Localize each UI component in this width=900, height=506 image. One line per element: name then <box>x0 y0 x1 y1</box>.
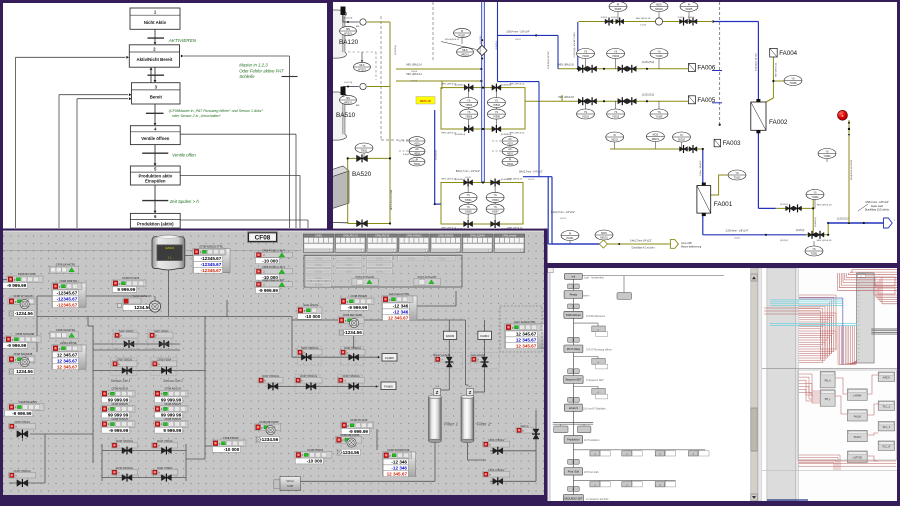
svg-text:(3,2/5,2/5,2): (3,2/5,2/5,2) <box>642 95 655 97</box>
svg-text:3,2/6,4: 3,2/6,4 <box>611 17 618 19</box>
svg-text:SEQUENZ-SET: SEQUENZ-SET <box>564 497 583 501</box>
svg-text:12 345.67: 12 345.67 <box>387 471 408 476</box>
svg-text:T0011: T0011 <box>414 163 421 166</box>
svg-text:AC: AC <box>415 138 419 141</box>
svg-text:CxOrq: CxOrq <box>345 271 353 274</box>
svg-text:-9 999.99: -9 999.99 <box>348 305 368 310</box>
svg-text:Z: Z <box>469 390 472 395</box>
svg-text:CF08 W501017TRL: CF08 W501017TRL <box>199 245 223 249</box>
svg-text:"teil": "teil" <box>468 385 472 388</box>
svg-text:CxOrq: CxOrq <box>315 264 323 267</box>
svg-text:(0,45/45,4): (0,45/45,4) <box>455 179 466 181</box>
svg-text:YS: YS <box>466 206 470 209</box>
svg-text:Aktiv/Nicht Bereit: Aktiv/Nicht Bereit <box>136 57 172 62</box>
svg-text:CF08 WY1015: CF08 WY1015 <box>18 272 36 276</box>
svg-text:Gebr SetSO/cTRL: Gebr SetSO/cTRL <box>514 320 536 324</box>
svg-text:MC PuWeg: MC PuWeg <box>567 347 581 351</box>
svg-text:T0011: T0011 <box>361 149 368 152</box>
svg-text:3,5/xx - 1/8"x1/4": 3,5/xx - 1/8"x1/4" <box>700 160 702 176</box>
svg-text:CF08 AI101/5: CF08 AI101/5 <box>111 387 128 391</box>
svg-text:M0101: M0101 <box>600 236 608 239</box>
svg-text:Y0105: Y0105 <box>656 115 664 118</box>
svg-text:Sequenz-SET: Sequenz-SET <box>565 378 582 382</box>
svg-text:"teilw" säV/stVo5: "teilw" säV/stVo5 <box>133 295 152 298</box>
svg-text:Pt: Pt <box>461 30 464 33</box>
svg-text:CF08 SO500/cTRL: CF08 SO500/cTRL <box>387 448 410 452</box>
svg-text:-12345.67: -12345.67 <box>57 297 78 302</box>
svg-text:99 999 99: 99 999 99 <box>108 413 129 418</box>
svg-text:Y0501: Y0501 <box>465 199 473 202</box>
svg-text:-9 999.99: -9 999.99 <box>7 283 27 288</box>
svg-text:WE101: WE101 <box>461 53 470 56</box>
svg-text:(0,45/45,4): (0,45/45,4) <box>501 134 512 136</box>
svg-text:Durchfluss 10,5 ml/min: Durchfluss 10,5 ml/min <box>865 209 890 212</box>
svg-text:CxOrq: CxOrq <box>408 257 416 260</box>
svg-text:M0102: M0102 <box>655 8 663 11</box>
svg-text:L5012: L5012 <box>528 179 535 181</box>
svg-text:3,2/6,4mm - 1/8"x1/4": 3,2/6,4mm - 1/8"x1/4" <box>726 230 749 233</box>
svg-text:Produktion (aktiv): Produktion (aktiv) <box>137 221 174 226</box>
svg-text:0,4x(2,7mm-1/4"x1/2": 0,4x(2,7mm-1/4"x1/2" <box>630 241 652 243</box>
svg-text:MOS: MOS <box>601 232 607 235</box>
svg-text:12 345.67: 12 345.67 <box>57 359 78 364</box>
svg-text:W/14: W/14 <box>286 479 293 483</box>
svg-text:A201: A201 <box>507 142 513 145</box>
svg-text:MLS: MLS <box>360 64 365 67</box>
svg-text:CF08 MEY02/M: CF08 MEY02/M <box>259 420 279 424</box>
svg-text:6: 6 <box>154 33 156 37</box>
svg-text:YS: YS <box>614 50 618 53</box>
svg-text:(3,2/5,2/5,2): (3,2/5,2/5,2) <box>837 219 850 221</box>
svg-text:FA004: FA004 <box>779 50 797 57</box>
svg-text:"teil": "teil" <box>435 385 439 388</box>
svg-text:AC: AC <box>415 148 419 151</box>
svg-text:99 999 99: 99 999 99 <box>161 413 182 418</box>
svg-text:all akt 9: all akt 9 <box>569 406 578 410</box>
svg-text:oil-to-oil/B: oil-to-oil/B <box>681 242 692 245</box>
svg-text:-9 999.99: -9 999.99 <box>258 288 278 293</box>
svg-text:YS: YS <box>362 145 366 148</box>
svg-text:CF08 MEY0296: CF08 MEY0296 <box>340 433 360 437</box>
svg-text:YS: YS <box>791 77 795 80</box>
svg-text:CF08 W01TRL: CF08 W01TRL <box>60 279 78 283</box>
svg-text:(0,05/25,2): (0,05/25,2) <box>815 217 817 227</box>
svg-text:HEV U(PuS.18: HEV U(PuS.18 <box>558 65 574 67</box>
svg-text:MOS: MOS <box>656 3 662 6</box>
svg-text:YS: YS <box>493 194 497 197</box>
svg-text:Einspülen: Einspülen <box>145 179 166 184</box>
svg-text:Master in 1,2,3: Master in 1,2,3 <box>239 63 268 68</box>
svg-text:Y0506: Y0506 <box>465 116 473 119</box>
svg-text:CF08 AI101/5: CF08 AI101/5 <box>164 387 181 391</box>
svg-text:Y0103: Y0103 <box>612 115 620 118</box>
svg-text:Filter 2: Filter 2 <box>477 422 491 427</box>
svg-text:CF08 PC1015: CF08 PC1015 <box>122 276 140 280</box>
svg-text:(1,0/1,0): (1,0/1,0) <box>344 18 352 20</box>
svg-text:-10 000: -10 000 <box>305 314 321 319</box>
svg-text:RETo-W: RETo-W <box>420 99 431 103</box>
svg-text:0,4x(2,7mm - 1/4"x1/2": 0,4x(2,7mm - 1/4"x1/2" <box>551 211 575 214</box>
svg-text:Filter 1: Filter 1 <box>444 422 458 427</box>
svg-text:P0101: P0101 <box>567 237 575 240</box>
svg-text:Pt: Pt <box>688 3 691 6</box>
svg-text:CxOrq: CxOrq <box>315 284 323 287</box>
svg-text:YS: YS <box>813 191 817 194</box>
svg-text:CF08 MEY0298: CF08 MEY0298 <box>343 313 363 317</box>
svg-text:12 345.67: 12 345.67 <box>516 332 537 337</box>
svg-text:CF08_PUT1/2: CF08_PUT1/2 <box>343 236 358 238</box>
svg-text:Ventile öffnen: Ventile öffnen <box>141 136 170 141</box>
svg-text:-10 000: -10 000 <box>307 459 323 464</box>
svg-text:5,6x(2,7mm - 1/4"x1/2": 5,6x(2,7mm - 1/4"x1/2" <box>403 154 425 156</box>
svg-text:S PuT Flussweg öffnen: S PuT Flussweg öffnen <box>586 348 612 351</box>
svg-text:CF08 UKA4TRL: CF08 UKA4TRL <box>56 263 76 267</box>
svg-text:CF08 AI502/5: CF08 AI502/5 <box>164 402 181 406</box>
svg-text:3,5/1(D)(L5.18"/1/4": 3,5/1(D)(L5.18"/1/4" <box>755 53 757 72</box>
svg-text:0,45/45,4: 0,45/45,4 <box>496 40 498 50</box>
svg-text:3,5/8,4 mm - 1/8"x1/4": 3,5/8,4 mm - 1/8"x1/4" <box>506 31 530 34</box>
svg-text:Init: Init <box>572 275 576 279</box>
svg-text:YS: YS <box>466 194 470 197</box>
svg-text:L5017: L5017 <box>515 39 522 41</box>
svg-text:T0108: T0108 <box>790 82 797 85</box>
svg-text:-9 999.99: -9 999.99 <box>7 343 27 348</box>
svg-text:CF08 AI502/5: CF08 AI502/5 <box>111 402 128 406</box>
svg-text:YS: YS <box>584 50 588 53</box>
svg-text:T0011: T0011 <box>507 163 514 166</box>
svg-text:S Sequenz SET: S Sequenz SET <box>586 379 604 382</box>
svg-text:Gebr teSv2o: Gebr teSv2o <box>303 303 319 307</box>
svg-text:-1234.56: -1234.56 <box>260 437 279 442</box>
svg-text:CF08 SC10158: CF08 SC10158 <box>16 332 35 336</box>
svg-text:IV08: IV08 <box>287 484 294 488</box>
svg-text:BA/(2,7mm - 1/4"x1/2": BA/(2,7mm - 1/4"x1/2" <box>519 171 543 174</box>
svg-text:CF08 PC1015: CF08 PC1015 <box>350 418 368 422</box>
svg-text:T0201: T0201 <box>811 252 818 255</box>
svg-text:3,5/8,4 mm - 1/8"x1/4": 3,5/8,4 mm - 1/8"x1/4" <box>865 201 889 204</box>
svg-text:-12 346: -12 346 <box>391 460 407 465</box>
svg-text:CF08 TI201/5: CF08 TI201/5 <box>165 417 182 421</box>
svg-text:Ventile offen: Ventile offen <box>172 152 196 157</box>
svg-text:FA003: FA003 <box>723 140 741 147</box>
svg-text:50102: 50102 <box>678 138 685 141</box>
svg-text:FA003: FA003 <box>446 334 455 338</box>
svg-text:L5011: L5011 <box>411 160 417 162</box>
svg-text:1234.56: 1234.56 <box>134 305 151 310</box>
svg-text:S PuW Aktivieren: S PuW Aktivieren <box>586 315 606 318</box>
svg-text:L5004: L5004 <box>734 238 741 240</box>
svg-text:Pt: Pt <box>617 3 620 6</box>
svg-text:HEV U(PuS.18: HEV U(PuS.18 <box>817 240 832 242</box>
svg-text:-12 346: -12 346 <box>393 304 409 309</box>
svg-text:AML: AML <box>356 104 360 107</box>
svg-text:CF08_CQK4/1: CF08_CQK4/1 <box>470 236 486 238</box>
svg-text:Y0508: Y0508 <box>493 116 501 119</box>
svg-text:PB_A: PB_A <box>825 380 832 383</box>
svg-text:BA/(1,7 mm - 1/4"x1/2": BA/(1,7 mm - 1/4"x1/2" <box>456 170 480 173</box>
svg-text:M0101: M0101 <box>652 138 660 141</box>
svg-text:YS: YS <box>812 248 816 251</box>
svg-text:-12345.67: -12345.67 <box>201 262 222 267</box>
svg-text:YS: YS <box>614 111 618 114</box>
svg-text:(3,2/5,2): (3,2/5,2) <box>796 230 805 232</box>
svg-text:PA11S: PA11S <box>854 436 861 439</box>
svg-text:AE01: AE01 <box>507 153 514 156</box>
svg-text:Y0502: Y0502 <box>465 104 473 107</box>
svg-text:HEV U(PuS.18: HEV U(PuS.18 <box>817 205 832 207</box>
svg-text:50105: 50105 <box>615 8 622 11</box>
svg-text:LARTSE: LARTSE <box>853 457 863 460</box>
svg-text:Y0302: Y0302 <box>824 155 832 158</box>
svg-text:FA006: FA006 <box>385 356 394 360</box>
svg-text:WE101: WE101 <box>344 101 353 104</box>
svg-text:(0,45/45,4): (0,45/45,4) <box>436 150 438 160</box>
svg-text:-9 999.99: -9 999.99 <box>109 428 129 433</box>
svg-text:HEV U(PuS.18: HEV U(PuS.18 <box>776 62 778 77</box>
svg-text:(3,2/5,2): (3,2/5,2) <box>780 240 788 242</box>
svg-text:0,45/45,4 - 8,4(1,0)4: 0,45/45,4 - 8,4(1,0)4 <box>480 35 482 55</box>
svg-text:CF08_Vento6: CF08_Vento6 <box>502 235 517 238</box>
svg-text:VEx(UPuS.18 L5015: VEx(UPuS.18 L5015 <box>851 159 853 180</box>
svg-text:99 999.99: 99 999.99 <box>161 398 182 403</box>
svg-text:CF08 SFQ0108: CF08 SFQ0108 <box>13 352 32 356</box>
svg-text:HEV U(Pu5.18: HEV U(Pu5.18 <box>636 18 651 20</box>
svg-text:(CF08Master in „PAT Flussweg ö: (CF08Master in „PAT Flussweg öffnen“ und… <box>169 109 264 113</box>
svg-text:Y0507: Y0507 <box>492 211 500 214</box>
svg-text:Y0104: Y0104 <box>612 55 620 58</box>
svg-text:CxOrq: CxOrq <box>315 277 323 280</box>
svg-text:HEV U(PuS.14: HEV U(PuS.14 <box>406 65 422 67</box>
svg-text:20 Prod. Edit: 20 Prod. Edit <box>584 471 599 474</box>
svg-text:LARM4: LARM4 <box>853 395 862 398</box>
svg-text:3,2/6,4: 3,2/6,4 <box>678 17 685 19</box>
svg-text:HEV U(PuS.1Z: HEV U(PuS.1Z <box>510 133 525 135</box>
svg-text:CF08 PI5015: CF08 PI5015 <box>223 436 239 440</box>
svg-text:-12345.67: -12345.67 <box>57 291 78 296</box>
svg-text:BA120: BA120 <box>339 39 359 46</box>
svg-text:Y0503: Y0503 <box>492 199 500 202</box>
svg-text:CxOrq: CxOrq <box>315 257 323 260</box>
svg-text:MOS: MOS <box>653 133 659 136</box>
svg-text:CxOrq: CxOrq <box>376 257 384 260</box>
svg-text:-10 000: -10 000 <box>224 447 240 452</box>
svg-text:1 L: 1 L <box>168 256 173 260</box>
svg-text:Schleife: Schleife <box>239 74 255 79</box>
svg-text:Sensor-Set 1: Sensor-Set 1 <box>111 379 131 383</box>
svg-text:9 999.99: 9 999.99 <box>163 428 181 433</box>
svg-text:YS: YS <box>735 172 739 175</box>
svg-text:(3,2/5,2): (3,2/5,2) <box>780 204 788 206</box>
svg-text:HEV U(PuS.1Z L5008: HEV U(PuS.1Z L5008 <box>391 189 393 210</box>
svg-text:HEV U(PuS.18: HEV U(PuS.18 <box>558 97 574 99</box>
svg-text:-9 999.99: -9 999.99 <box>12 411 32 416</box>
svg-text:Produktion: Produktion <box>567 438 580 442</box>
svg-text:-12345.67: -12345.67 <box>57 302 78 307</box>
svg-text:12 345.67: 12 345.67 <box>57 364 78 369</box>
svg-text:YS: YS <box>495 99 499 102</box>
svg-text:CF08 LP07RL: CF08 LP07RL <box>60 341 78 345</box>
svg-text:Pt: Pt <box>614 134 617 137</box>
svg-text:CF08_FISW20: CF08_FISW20 <box>438 236 454 238</box>
svg-text:L5006: L5006 <box>411 81 418 83</box>
svg-text:Durchfluss 4,2 mL/min: Durchfluss 4,2 mL/min <box>632 247 656 250</box>
svg-text:T0103: T0103 <box>734 176 741 179</box>
svg-text:Gebr beton/cTRL: Gebr beton/cTRL <box>389 292 410 296</box>
svg-text:AVE3Y: AVE3Y <box>883 377 891 380</box>
svg-text:(0,45/45,4): (0,45/45,4) <box>455 134 466 136</box>
svg-text:Pt: Pt <box>509 158 512 161</box>
svg-text:-1234.56: -1234.56 <box>15 311 34 316</box>
svg-text:Nicht Aktiv: Nicht Aktiv <box>144 20 167 25</box>
svg-text:CF08: CF08 <box>255 235 271 242</box>
svg-text:CF08_PUT30: CF08_PUT30 <box>375 236 390 238</box>
svg-text:CxOrq: CxOrq <box>345 264 353 267</box>
svg-text:Y0504: Y0504 <box>493 104 501 107</box>
svg-text:YS: YS <box>467 111 471 114</box>
svg-text:PAL06: PAL06 <box>854 415 862 418</box>
svg-text:BA010: BA010 <box>165 246 174 250</box>
svg-text:-1234.56: -1234.56 <box>341 450 360 455</box>
svg-text:Y0202: Y0202 <box>812 196 820 199</box>
svg-text:FA004: FA004 <box>480 334 489 338</box>
svg-text:3,2/6,4: 3,2/6,4 <box>601 17 608 19</box>
svg-text:U(PuS(PuS.1Z: U(PuS(PuS.1Z <box>445 39 460 41</box>
svg-text:AKTIVIEREN: AKTIVIEREN <box>168 38 197 43</box>
svg-text:CxOrq: CxOrq <box>438 257 446 260</box>
svg-text:Y0102: Y0102 <box>582 55 590 58</box>
svg-text:CF08_FISW15: CF08_FISW15 <box>406 236 422 238</box>
svg-text:-10 000: -10 000 <box>262 258 278 263</box>
svg-text:YS: YS <box>825 150 829 153</box>
svg-text:AC: AC <box>508 148 512 151</box>
svg-text:Sensor-Set 2: Sensor-Set 2 <box>163 379 183 383</box>
svg-text:L5018: L5018 <box>640 25 647 27</box>
svg-text:Pt: Pt <box>569 232 572 235</box>
svg-text:CxOrq: CxOrq <box>315 271 323 274</box>
svg-text:PLC_R: PLC_R <box>883 446 891 449</box>
svg-text:P0101: P0101 <box>459 34 467 37</box>
svg-text:Y0106: Y0106 <box>656 55 664 58</box>
svg-text:10 Produktion: 10 Produktion <box>584 439 600 442</box>
svg-text:Lauf - Vorbereiten: Lauf - Vorbereiten <box>584 277 604 280</box>
svg-text:PLC_3: PLC_3 <box>883 426 891 429</box>
svg-text:-12 346: -12 346 <box>393 310 409 315</box>
svg-text:(3,16(4)(6), 1/5x1/4" L5016: (3,16(4)(6), 1/5x1/4" L5016 <box>574 32 576 58</box>
svg-text:12 345.67: 12 345.67 <box>516 338 537 343</box>
svg-text:YS: YS <box>657 50 661 53</box>
svg-text:PLC_2: PLC_2 <box>883 406 891 409</box>
svg-text:Pt: Pt <box>680 134 683 137</box>
svg-text:A: A <box>842 114 844 118</box>
svg-text:3,5/1(D)(L5.18"/1/4": 3,5/1(D)(L5.18"/1/4" <box>548 51 550 70</box>
svg-text:1234.56: 1234.56 <box>16 369 33 374</box>
svg-text:12 345.67: 12 345.67 <box>57 353 78 358</box>
svg-text:YS: YS <box>493 206 497 209</box>
svg-text:CF08 P01026: CF08 P01026 <box>350 294 367 298</box>
svg-text:Ready: Ready <box>570 293 578 297</box>
svg-text:YS: YS <box>657 111 661 114</box>
svg-text:CF08 TI201/5: CF08 TI201/5 <box>112 417 129 421</box>
svg-text:PB_L: PB_L <box>825 398 832 401</box>
svg-text:FA005: FA005 <box>384 384 393 388</box>
svg-text:CxOrq: CxOrq <box>345 257 353 260</box>
svg-text:12 345.67: 12 345.67 <box>388 315 409 320</box>
svg-text:ZuU und P Stabilisie...: ZuU und P Stabilisie... <box>583 407 608 410</box>
svg-text:50105: 50105 <box>686 8 693 11</box>
svg-text:Prod. Edit: Prod. Edit <box>568 470 580 474</box>
svg-text:AML: AML <box>356 25 360 28</box>
svg-text:BA510: BA510 <box>336 112 356 119</box>
svg-text:AC: AC <box>508 138 512 141</box>
svg-text:CxOrq: CxOrq <box>376 271 384 274</box>
svg-text:(1,0/1,0): (1,0/1,0) <box>344 82 352 84</box>
svg-text:Y0505: Y0505 <box>465 211 473 214</box>
svg-text:Z: Z <box>436 390 439 395</box>
svg-text:9 999.99: 9 999.99 <box>117 287 135 292</box>
svg-text:(0,45/45,4): (0,45/45,4) <box>501 84 512 86</box>
svg-text:PAW Aktivier: PAW Aktivier <box>566 313 581 317</box>
svg-text:WY201: WY201 <box>344 32 353 35</box>
svg-text:L5012: L5012 <box>560 218 567 220</box>
svg-text:MLS: MLS <box>463 49 468 52</box>
svg-text:Gesa: nach: Gesa: nach <box>871 205 884 208</box>
svg-text:Bereit: Bereit <box>150 95 163 100</box>
svg-text:YS: YS <box>467 99 471 102</box>
svg-text:Y0101: Y0101 <box>582 115 590 118</box>
svg-text:-12 346: -12 346 <box>391 466 407 471</box>
svg-text:(0,45/45,4): (0,45/45,4) <box>455 84 466 86</box>
svg-text:Masse-kalibrierung: Masse-kalibrierung <box>681 246 702 249</box>
svg-text:Zeit Spülen > h: Zeit Spülen > h <box>169 199 200 204</box>
svg-text:zu Sequenz auf PuT...: zu Sequenz auf PuT... <box>586 498 611 501</box>
svg-text:MS: MS <box>346 97 350 100</box>
svg-text:CF08 WY10108: CF08 WY10108 <box>13 294 33 298</box>
svg-text:12 345.67: 12 345.67 <box>516 343 537 348</box>
svg-text:CxOrq: CxOrq <box>376 264 384 267</box>
svg-text:-12345.67: -12345.67 <box>201 256 222 261</box>
svg-text:(0,45/45,4): (0,45/45,4) <box>501 179 512 181</box>
svg-text:-1234.56: -1234.56 <box>344 330 363 335</box>
svg-text:A201: A201 <box>414 142 420 145</box>
svg-text:L5006: L5006 <box>411 71 418 73</box>
svg-text:CF08 WH10V5: CF08 WH10V5 <box>19 400 38 404</box>
svg-text:CF081: CF081 <box>315 236 323 238</box>
svg-text:50101: 50101 <box>611 138 618 141</box>
svg-text:FA001: FA001 <box>714 201 733 208</box>
svg-text:HEV U(PuS.1Z: HEV U(PuS.1Z <box>510 84 525 86</box>
svg-text:WY201: WY201 <box>358 68 367 71</box>
svg-text:MS: MS <box>346 28 350 31</box>
svg-text:FA002: FA002 <box>769 119 788 126</box>
svg-text:CF08 UKA4TRL: CF08 UKA4TRL <box>56 328 76 332</box>
svg-text:Oder Fehler aktive PAT: Oder Fehler aktive PAT <box>239 68 284 73</box>
svg-text:BA520: BA520 <box>352 171 372 178</box>
svg-text:HEV U(PuS.14: HEV U(PuS.14 <box>406 74 422 76</box>
svg-text:(0,45/45,4): (0,45/45,4) <box>395 45 397 55</box>
svg-text:L5011: L5011 <box>465 177 472 179</box>
svg-text:99 999.99: 99 999.99 <box>108 398 129 403</box>
svg-text:Intern: Intern <box>583 295 590 298</box>
svg-text:(3,2/5,2/5,2): (3,2/5,2/5,2) <box>642 62 655 64</box>
svg-text:oder Sensor 2 in „Umschalten“: oder Sensor 2 in „Umschalten“ <box>172 114 222 118</box>
svg-text:CF08 PI5015: CF08 PI5015 <box>307 448 323 452</box>
svg-text:-12345.67: -12345.67 <box>201 268 222 273</box>
svg-text:YS: YS <box>495 111 499 114</box>
svg-text:YS: YS <box>584 111 588 114</box>
